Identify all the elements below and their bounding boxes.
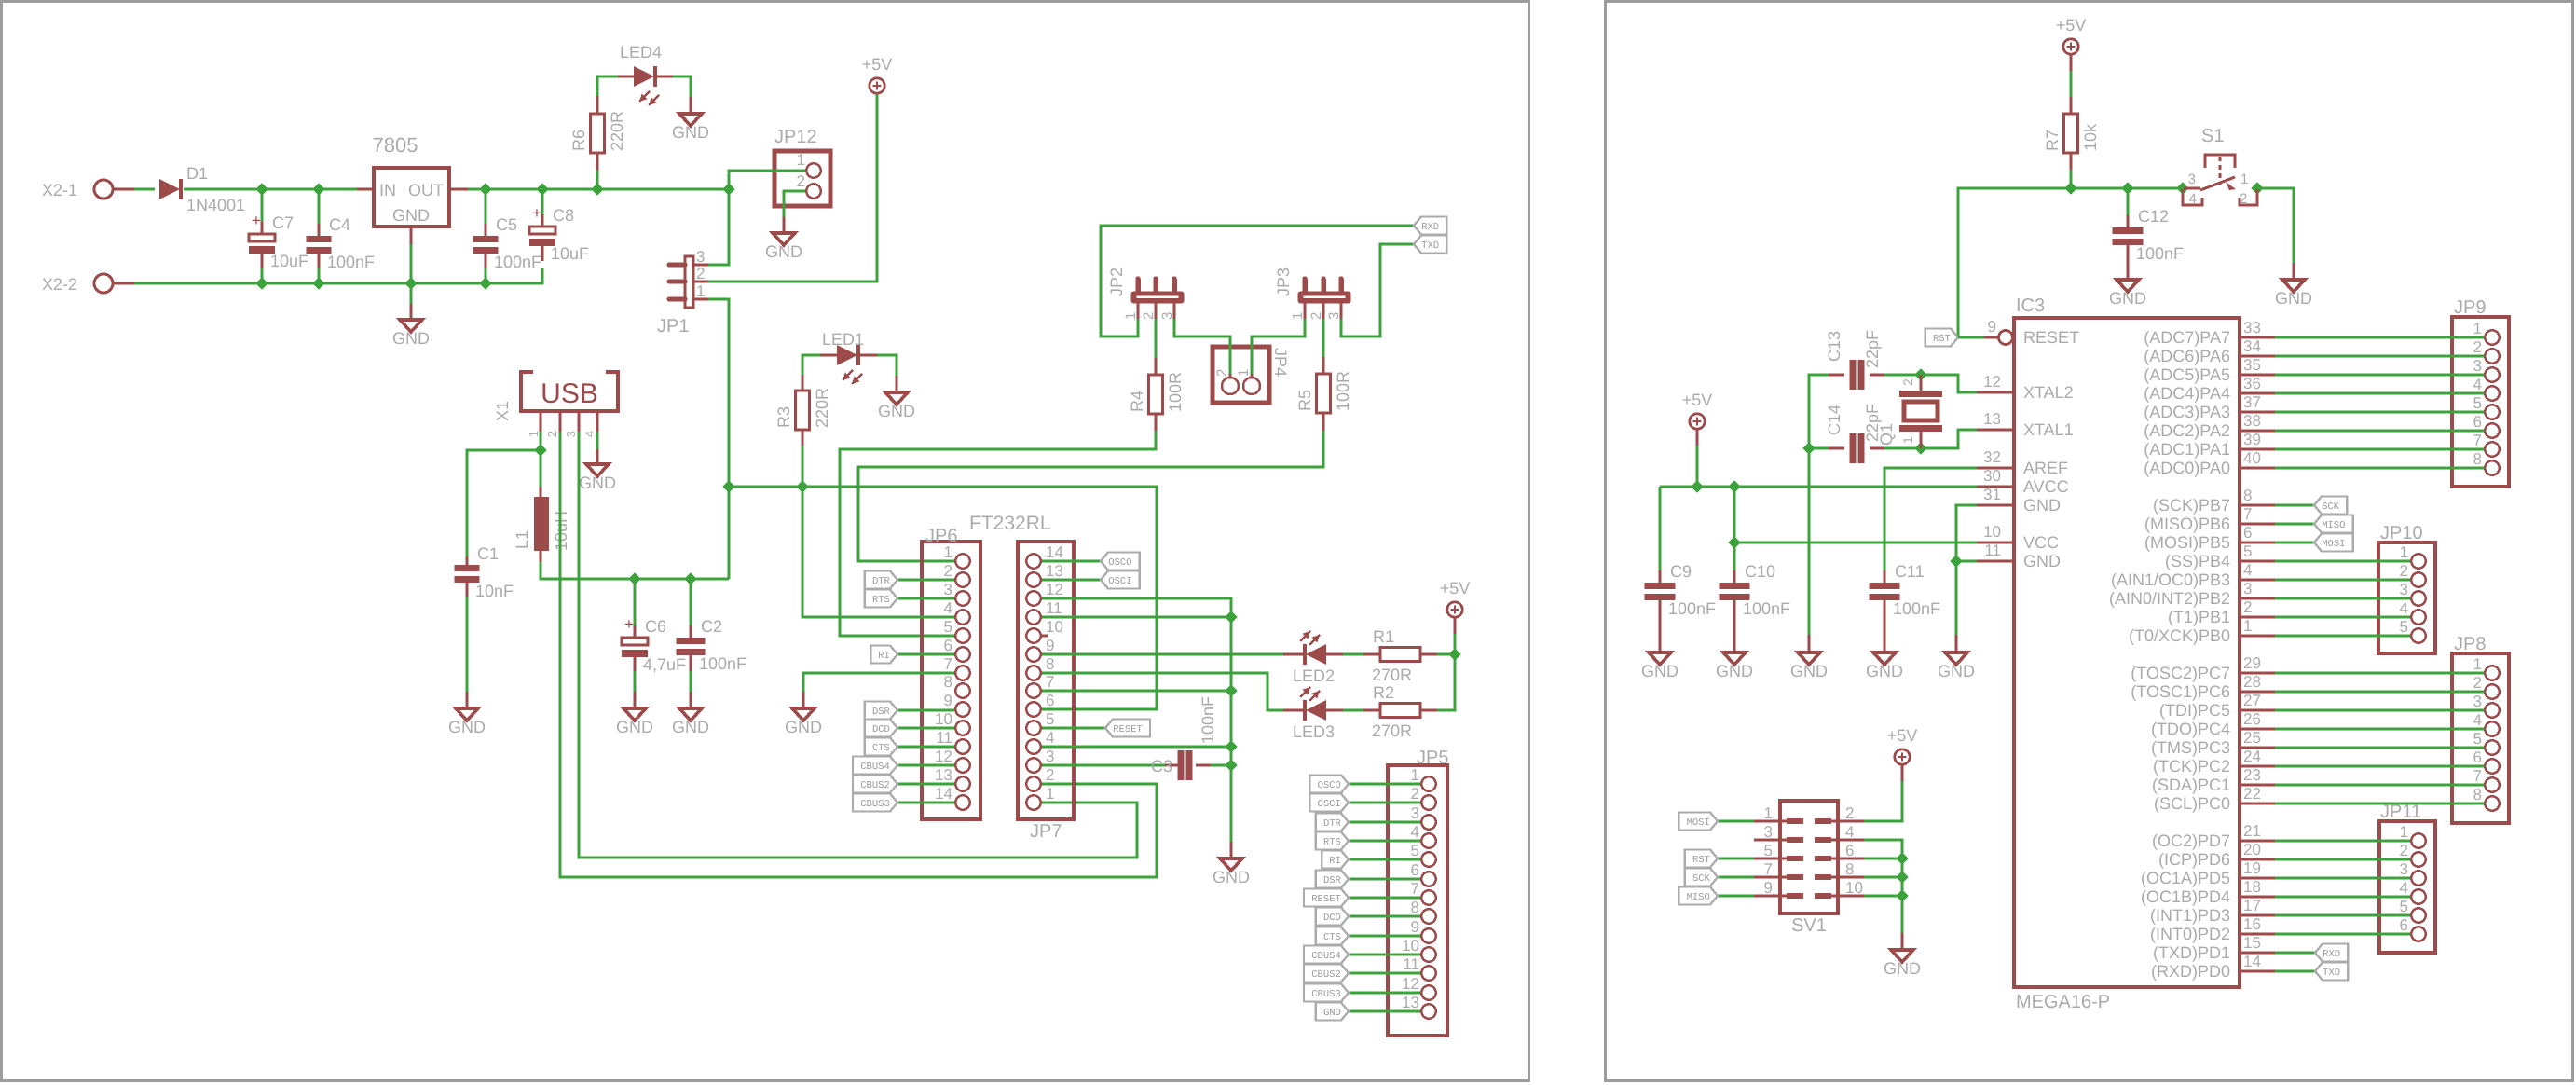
junction out/C5 (479, 183, 491, 195)
svg-text:JP8: JP8 (2454, 634, 2486, 654)
IC3 pin 13 XTAL1 (1977, 429, 2014, 432)
IC3 pin 25 (TMS)PC3 (2240, 747, 2275, 749)
svg-text:(OC1A)PD5: (OC1A)PD5 (2141, 869, 2230, 887)
JP9 pin 4 (2485, 386, 2499, 400)
ground SV1 GND (1891, 950, 1913, 962)
wire LED3 anode lead (pin stub) (1326, 709, 1343, 712)
svg-text:37: 37 (2243, 393, 2261, 411)
svg-text:(TCK)PC2: (TCK)PC2 (2153, 757, 2230, 776)
wire R1 left lead (pin stub) (1363, 653, 1380, 656)
svg-text:7: 7 (1411, 880, 1419, 898)
svg-text:4: 4 (2473, 711, 2482, 729)
resistor R7 10k (2064, 114, 2078, 153)
svg-text:GND: GND (2023, 496, 2061, 515)
junction sv1/pin6 (1896, 852, 1908, 864)
net flag DSR at JP5 (1316, 871, 1349, 888)
wire CBUS3 flag to JP6 (897, 802, 954, 804)
JP6 pin 10 (955, 721, 969, 735)
wire 7805 out to JP1 pin3 (708, 189, 729, 265)
svg-text:1: 1 (2473, 320, 2482, 337)
wire GND symbol lead (pin stub) (410, 304, 413, 320)
svg-text:7: 7 (2473, 767, 2482, 785)
net flag SCK at PB7 (2314, 497, 2347, 515)
svg-text:CBUS3: CBUS3 (860, 799, 890, 810)
wire PA4 wire (2275, 392, 2484, 395)
wire LED2 cathode lead (pin stub) (1283, 653, 1304, 656)
wire PC5 wire (2275, 709, 2484, 712)
junction out/JP12 (722, 183, 734, 195)
wire JP7 pin11 to rail (1042, 616, 1231, 619)
JP6 pin 4 (955, 610, 969, 624)
svg-text:C11: C11 (1895, 562, 1925, 581)
wire PB0 wire (2275, 635, 2410, 638)
svg-text:SV1: SV1 (1791, 915, 1827, 936)
wire JP5 pin13 wire (1349, 1010, 1420, 1013)
wire R3 to LED1 (802, 355, 820, 375)
wire PD7 wire (2275, 840, 2410, 843)
wire C4 bottom lead (pin stub) (318, 254, 321, 268)
IC3 pin 19 (OC1A)PD5 (2240, 877, 2275, 880)
JP9 pin 7 (2485, 442, 2499, 456)
wire S1 GND lead (pin stub) (2293, 263, 2295, 280)
svg-text:JP2: JP2 (1107, 268, 1126, 296)
IC3 pin 34 (ADC6)PA6 (2240, 355, 2275, 358)
JP9 pin 5 (2485, 405, 2499, 419)
svg-text:8: 8 (2473, 786, 2482, 803)
IC3 pin 7 (MISO)PB6 (2240, 523, 2275, 526)
svg-text:(RXD)PD0: (RXD)PD0 (2151, 962, 2230, 981)
svg-text:270R: 270R (1372, 666, 1412, 684)
svg-text:2: 2 (1411, 785, 1419, 803)
wire C12 top lead (pin stub) (2127, 215, 2130, 227)
wire JP4 pin1 lead (pin stub) (1251, 374, 1254, 378)
svg-text:2: 2 (2473, 338, 2482, 356)
wire +5V to R7 (2070, 71, 2073, 97)
svg-text:1: 1 (1900, 436, 1915, 444)
svg-text:9: 9 (1764, 879, 1773, 897)
net flag RI at JP5 (1322, 851, 1349, 869)
wire C11 bottom lead (pin stub) (1884, 600, 1886, 652)
svg-text:+5V: +5V (862, 55, 893, 74)
JP11 pin 2 (2411, 852, 2425, 866)
connector JP3 (1298, 292, 1351, 304)
svg-text:2: 2 (1845, 804, 1854, 822)
junction VIN/C4 (312, 183, 324, 195)
wire USB pin4 stub (pin stub) (596, 411, 599, 432)
svg-text:1: 1 (696, 282, 705, 300)
junction usbvcc/C6 (628, 572, 640, 584)
IC3 pin 28 (TOSC1)PC6 (2240, 691, 2275, 694)
svg-text:3: 3 (1411, 804, 1419, 822)
svg-text:9: 9 (1988, 318, 1996, 336)
connector pad X2-2 (94, 274, 113, 293)
wire DCD flag to JP6 (897, 727, 954, 730)
JP8 pin 7 (2485, 777, 2499, 791)
wire R4 top lead (pin stub) (1155, 358, 1158, 375)
svg-text:2: 2 (797, 172, 805, 190)
svg-text:5: 5 (2400, 898, 2408, 915)
net flag MOSI at SV1 (1679, 813, 1718, 831)
svg-text:4: 4 (944, 599, 952, 617)
junction JP1pin1/LED1net (722, 480, 734, 492)
wire PD5 wire (2275, 877, 2410, 880)
JP7 pin 4 (1026, 739, 1040, 753)
junction rail/7805GND (404, 277, 417, 289)
svg-text:3: 3 (1326, 312, 1342, 320)
svg-text:(SDA)PC1: (SDA)PC1 (2152, 776, 2230, 794)
svg-text:AREF: AREF (2023, 459, 2068, 477)
svg-text:2: 2 (2473, 674, 2482, 692)
wire +5V lead (pin stub) (1454, 617, 1457, 634)
junction avcc/C10 (1728, 480, 1740, 492)
svg-text:X2-2: X2-2 (42, 275, 77, 294)
svg-text:2: 2 (1900, 378, 1915, 386)
svg-text:DSR: DSR (872, 707, 891, 718)
svg-text:5: 5 (944, 618, 952, 636)
svg-text:1: 1 (2473, 655, 2482, 673)
svg-text:14: 14 (2243, 953, 2261, 970)
svg-text:VCC: VCC (2023, 533, 2059, 552)
resistor R4 100R (1149, 375, 1163, 414)
junction usbvcc/C2 (684, 572, 696, 584)
junction S1 left (2176, 182, 2188, 194)
wire JP1 pin1 to USB VCC (708, 299, 729, 579)
svg-text:10uF: 10uF (270, 252, 308, 270)
wire PD6 wire (2275, 858, 2410, 861)
svg-text:(ADC2)PA2: (ADC2)PA2 (2144, 421, 2230, 440)
net flag CBUS2 at JP5 (1304, 965, 1349, 982)
wire C14 right lead (pin stub) (1870, 447, 1884, 450)
svg-text:C12: C12 (2138, 207, 2169, 226)
svg-text:C9: C9 (1670, 562, 1692, 581)
JP7 pin 11 (1026, 610, 1040, 624)
LED LED3 (1306, 700, 1326, 721)
wire JP1 pin1 stub lead (pin stub) (693, 298, 708, 301)
wire D1 to 7805 IN net (184, 188, 357, 191)
JP7 pin 9 (1026, 647, 1040, 661)
wire MOSI to SV1 pin1 (1718, 820, 1754, 823)
wire JP7 pin13 to OSCI (1042, 579, 1101, 582)
svg-text:JP4: JP4 (1271, 348, 1290, 377)
wire R3 to net (802, 446, 804, 487)
inductor L1 10uH (534, 497, 549, 551)
svg-text:RI: RI (878, 651, 890, 662)
wire R2 right lead (pin stub) (1420, 709, 1437, 712)
wire C2 bottom lead (pin stub) (690, 655, 692, 671)
junction vcc/C10 (1728, 536, 1740, 548)
wire JP3 pin3 to TXD (1341, 244, 1414, 336)
wire R1 right lead (pin stub) (1420, 653, 1437, 656)
svg-text:4: 4 (2400, 599, 2408, 617)
wire reset net (1958, 188, 2183, 337)
junction xtal1/Q1 (1914, 442, 1926, 454)
IC3 pin 20 (ICP)PD6 (2240, 858, 2275, 861)
wire C6 top lead (pin stub) (634, 625, 637, 638)
net flag RI at JP6 (870, 646, 897, 664)
wire JP6 GND lead (pin stub) (802, 692, 805, 708)
wire C5 top lead (pin stub) (485, 224, 487, 236)
wire PB1 wire (2275, 616, 2410, 619)
JP5 pin 6 (1421, 872, 1435, 886)
LED LED2 (1306, 644, 1326, 665)
svg-text:3: 3 (696, 248, 705, 266)
wire JP4 pin2 lead (pin stub) (1229, 374, 1232, 378)
net flag RTS at JP6 (865, 590, 897, 608)
wire SV1 pin10 (1864, 895, 1902, 898)
svg-text:(T1)PB1: (T1)PB1 (2168, 608, 2230, 626)
svg-text:GND: GND (1790, 662, 1828, 680)
wire C13 left lead (pin stub) (1829, 374, 1844, 377)
svg-text:CTS: CTS (872, 743, 890, 754)
svg-text:2: 2 (2243, 598, 2252, 616)
connector JP5 outline (1388, 765, 1447, 1036)
svg-text:(MOSI)PB5: (MOSI)PB5 (2144, 533, 2230, 552)
IC3 pin 2 (T1)PB1 (2240, 616, 2275, 619)
junction rail/C3 (1225, 759, 1237, 771)
svg-text:2: 2 (944, 562, 952, 580)
net flag OSCI at JP7 (1101, 571, 1140, 589)
svg-text:100nF: 100nF (1893, 599, 1940, 618)
wire +5V lead (pin stub) (1901, 764, 1904, 781)
right sheet frame (1606, 2, 2573, 1081)
wire IC3 pin9 lead (pin stub) (1984, 336, 1998, 339)
svg-text:JP5: JP5 (1417, 748, 1448, 768)
wire +5V to JP1 pin2 (708, 94, 877, 282)
svg-text:RESET: RESET (1311, 894, 1341, 905)
svg-text:11: 11 (1046, 599, 1062, 617)
JP6 pin 14 (955, 795, 969, 809)
wire +5V output rail (468, 188, 729, 191)
wire SV1 GND lead (pin stub) (1901, 933, 1904, 950)
svg-text:OSCO: OSCO (1108, 557, 1131, 569)
svg-text:+: + (252, 212, 261, 229)
net flag RESET at JP5 (1304, 889, 1349, 907)
svg-text:10: 10 (1402, 937, 1419, 955)
wire C14 to GND rail (1809, 447, 1829, 450)
svg-text:GND: GND (392, 329, 430, 348)
wire 7805 OUT pin (pin stub) (449, 188, 468, 191)
net flag CTS at JP5 (1316, 927, 1349, 945)
junction reset/R7 (2064, 182, 2076, 194)
wire rail to C2 (690, 579, 692, 625)
svg-text:JP3: JP3 (1274, 268, 1293, 296)
wire CTS flag to JP6 (897, 746, 954, 749)
JP12 pin 2 (806, 184, 820, 198)
svg-text:10nF: 10nF (475, 582, 514, 600)
JP10 pin 1 (2411, 554, 2425, 568)
svg-text:RTS: RTS (872, 595, 890, 606)
svg-text:GND: GND (2275, 289, 2312, 308)
wire JP5 pin5 wire (1349, 858, 1420, 861)
IC3 pin 38 (ADC2)PA2 (2240, 430, 2275, 433)
svg-text:FT232RL: FT232RL (969, 513, 1051, 534)
svg-text:2: 2 (1309, 312, 1324, 320)
wire C7 bottom lead (pin stub) (261, 254, 264, 268)
wire R5 bottom lead (pin stub) (1322, 413, 1325, 431)
svg-text:JP1: JP1 (657, 316, 689, 336)
connector JP4 outline (1213, 347, 1269, 403)
IC3 pin 5 (SS)PB4 (2240, 560, 2275, 563)
junction reset/C12 (2121, 182, 2133, 194)
svg-text:1: 1 (1046, 785, 1054, 803)
svg-text:35: 35 (2243, 356, 2261, 374)
svg-text:(ADC1)PA1: (ADC1)PA1 (2144, 440, 2230, 459)
wire C1 bottom lead (pin stub) (466, 583, 469, 597)
IC3 pin 10 VCC (1977, 542, 2014, 544)
LED LED4 (634, 66, 654, 87)
ground C2 GND (679, 708, 702, 721)
wire USB pin1 stub (pin stub) (540, 411, 542, 432)
JP6 pin 9 (955, 702, 969, 716)
wire JP5 pin7 wire (1349, 897, 1420, 900)
IC3 pin 30 AVCC (1977, 486, 2014, 488)
svg-text:(TOSC2)PC7: (TOSC2)PC7 (2131, 664, 2230, 682)
JP5 pin 13 (1421, 1004, 1435, 1018)
wire R3 top lead (pin stub) (802, 375, 804, 391)
svg-text:1: 1 (2400, 823, 2408, 841)
net flag RST at IC3 RESET (1925, 329, 1958, 347)
wire C2 top lead (pin stub) (690, 625, 692, 638)
wire C7 top lead (pin stub) (261, 222, 264, 234)
capacitor C3 (series) (1178, 750, 1185, 780)
wire C5 to rail (485, 268, 487, 283)
wire PA2 wire (2275, 430, 2484, 433)
svg-text:CBUS2: CBUS2 (1311, 969, 1341, 981)
junction avcc/+5V (1691, 480, 1703, 492)
wire LED4 GND lead (pin stub) (690, 97, 692, 114)
svg-text:RXD: RXD (1421, 222, 1439, 233)
svg-text:15: 15 (2243, 934, 2261, 952)
svg-text:4: 4 (2473, 376, 2482, 393)
IC3 pin 21 (OC2)PD7 (2240, 840, 2275, 843)
left sheet frame (2, 2, 1529, 1081)
wire C6 to GND (634, 671, 637, 692)
svg-text:3: 3 (2400, 581, 2408, 598)
JP7 pin 12 (1026, 591, 1040, 605)
svg-text:3: 3 (2188, 172, 2196, 187)
JP10 pin 5 (2411, 628, 2425, 642)
wire R6 top lead (pin stub) (596, 96, 599, 114)
wire L1 top lead (pin stub) (540, 487, 542, 497)
wire USB pin1 down (540, 432, 542, 487)
junction S1 right (2251, 182, 2263, 194)
svg-text:3: 3 (1046, 748, 1054, 765)
wire JP5 pin1 wire (1349, 783, 1420, 786)
wire C3 to rail (1211, 764, 1231, 767)
wire PB2 wire (2275, 597, 2410, 600)
svg-text:GND: GND (1866, 662, 1903, 680)
net flag CBUS3 at JP6 (853, 794, 897, 812)
svg-text:C4: C4 (329, 215, 350, 234)
svg-text:R4: R4 (1128, 391, 1146, 412)
ground JP6 pin7 GND (792, 708, 815, 721)
net flag MISO at PB6 (2314, 515, 2353, 533)
wire JP2 pin2 to R4 (1155, 319, 1158, 358)
svg-text:27: 27 (2243, 692, 2261, 709)
JP5 pin 9 (1421, 928, 1435, 942)
svg-text:R3: R3 (774, 406, 793, 428)
svg-text:RTS: RTS (1323, 837, 1341, 848)
svg-text:CTS: CTS (1323, 932, 1341, 943)
ground FT232 GND (1220, 858, 1242, 871)
svg-text:270R: 270R (1372, 721, 1412, 740)
crystal Q1 (1899, 391, 1942, 397)
svg-text:5: 5 (2473, 730, 2482, 748)
svg-text:1: 1 (1236, 369, 1252, 377)
wire C4 to GND rail (318, 268, 321, 283)
wire L1 to VCC rail (541, 562, 729, 579)
wire rail GND lead (pin stub) (1230, 842, 1233, 858)
svg-text:TXD: TXD (2323, 968, 2340, 979)
JP5 pin 8 (1421, 909, 1435, 923)
svg-text:CBUS3: CBUS3 (1311, 989, 1341, 1000)
svg-text:DCD: DCD (872, 724, 890, 735)
JP6 pin 7 (955, 666, 969, 680)
svg-text:12: 12 (935, 748, 952, 765)
wire LED1 anode lead (pin stub) (820, 354, 837, 357)
wire PD1 to RXD (2275, 952, 2315, 955)
wire R1 to +5V rail (1437, 653, 1455, 656)
wire AREF net (1884, 468, 1977, 570)
svg-text:6: 6 (1845, 842, 1854, 859)
wire 7805 GND to rail (410, 244, 413, 283)
wire JP7 pin3 to C3 (1042, 764, 1165, 767)
svg-text:7: 7 (2473, 432, 2482, 449)
wire SCK to SV1 pin7 (1718, 876, 1754, 879)
svg-text:(TMS)PC3: (TMS)PC3 (2151, 738, 2230, 757)
net flag OSCI at JP5 (1309, 794, 1349, 812)
svg-text:(INT0)PD2: (INT0)PD2 (2150, 925, 2230, 943)
svg-text:GND: GND (785, 718, 822, 736)
JP7 pin 6 (1026, 702, 1040, 716)
svg-text:(ADC6)PA6: (ADC6)PA6 (2144, 347, 2230, 365)
wire out to R6 (596, 170, 599, 189)
connector pad X2-1 (94, 180, 113, 199)
wire rail to C6 (634, 579, 637, 625)
connector JP11 outline (2379, 821, 2435, 953)
svg-text:JP12: JP12 (774, 127, 817, 147)
svg-text:2: 2 (2400, 842, 2408, 859)
wire SV1 pin6 (1864, 858, 1902, 860)
junction USBVCC/C1 (534, 444, 546, 456)
JP7 pin 7 (1026, 683, 1040, 697)
wire PB5 to MOSI (2275, 542, 2314, 544)
svg-text:X1: X1 (493, 401, 512, 421)
wire PB7 to SCK (2275, 504, 2314, 507)
wire JP5 pin11 wire (1349, 972, 1420, 975)
wire PB4 wire (2275, 560, 2410, 563)
svg-text:2: 2 (696, 265, 705, 282)
svg-text:3: 3 (1159, 312, 1175, 320)
wire USB D+ (pin3) to JP7 pin1 (579, 432, 1137, 858)
junction out/C8 (536, 183, 548, 195)
wire PC7 wire (2275, 672, 2484, 675)
svg-text:C3: C3 (1151, 757, 1172, 776)
wire reset to C12 (2127, 188, 2130, 215)
svg-text:11: 11 (1403, 955, 1419, 973)
resistor R3 220R (796, 391, 810, 430)
junction rail/pin4 (1225, 740, 1237, 752)
wire LED1 cathode lead (pin stub) (860, 354, 877, 357)
svg-text:R7: R7 (2043, 130, 2062, 151)
svg-text:24: 24 (2243, 748, 2261, 765)
svg-text:RST: RST (1692, 855, 1710, 866)
svg-text:RESET: RESET (2023, 328, 2079, 347)
net flag MOSI at PB5 (2314, 534, 2353, 552)
capacitor C8 10uF (polarized) (529, 227, 555, 234)
svg-text:GND: GND (2023, 552, 2061, 570)
svg-text:+: + (532, 204, 541, 222)
